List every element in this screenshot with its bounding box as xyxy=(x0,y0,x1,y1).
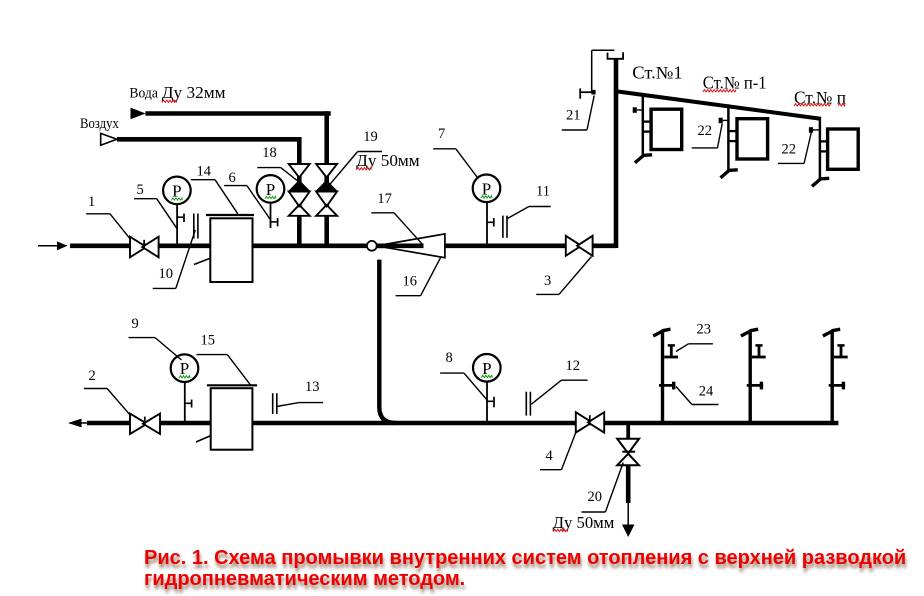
svg-text:16: 16 xyxy=(403,273,418,289)
svg-text:Ст.№1: Ст.№1 xyxy=(632,63,682,83)
svg-text:10: 10 xyxy=(159,266,174,282)
svg-text:Ду 32мм: Ду 32мм xyxy=(162,83,226,102)
svg-text:2: 2 xyxy=(89,368,96,384)
svg-text:12: 12 xyxy=(566,358,581,374)
svg-text:20: 20 xyxy=(588,489,603,505)
svg-text:17: 17 xyxy=(377,191,392,207)
svg-text:19: 19 xyxy=(363,129,378,145)
svg-text:22: 22 xyxy=(698,123,713,139)
svg-text:Р: Р xyxy=(172,181,181,200)
svg-text:8: 8 xyxy=(446,350,453,366)
svg-text:Р: Р xyxy=(482,359,491,378)
svg-text:13: 13 xyxy=(305,379,320,395)
svg-text:23: 23 xyxy=(697,322,712,338)
svg-text:11: 11 xyxy=(536,184,550,200)
svg-text:Воздух: Воздух xyxy=(80,116,119,132)
svg-text:18: 18 xyxy=(262,145,277,161)
svg-text:1: 1 xyxy=(88,194,95,210)
svg-text:Р: Р xyxy=(180,359,189,378)
svg-text:15: 15 xyxy=(201,333,216,349)
svg-text:4: 4 xyxy=(546,448,554,464)
svg-text:Ду 50мм: Ду 50мм xyxy=(356,151,420,170)
svg-text:24: 24 xyxy=(699,383,714,399)
svg-text:9: 9 xyxy=(132,316,139,332)
svg-text:Р: Р xyxy=(266,180,275,199)
svg-text:21: 21 xyxy=(566,108,581,124)
svg-text:6: 6 xyxy=(229,170,236,186)
svg-text:22: 22 xyxy=(782,142,797,158)
svg-text:14: 14 xyxy=(197,164,212,180)
svg-text:Вода: Вода xyxy=(129,85,158,101)
svg-text:Р: Р xyxy=(482,179,491,198)
svg-text:Ст.№ п-1: Ст.№ п-1 xyxy=(703,73,767,93)
svg-text:5: 5 xyxy=(137,182,144,198)
svg-text:Ду 50мм: Ду 50мм xyxy=(553,513,615,532)
svg-text:7: 7 xyxy=(438,126,445,142)
svg-text:3: 3 xyxy=(544,273,551,289)
